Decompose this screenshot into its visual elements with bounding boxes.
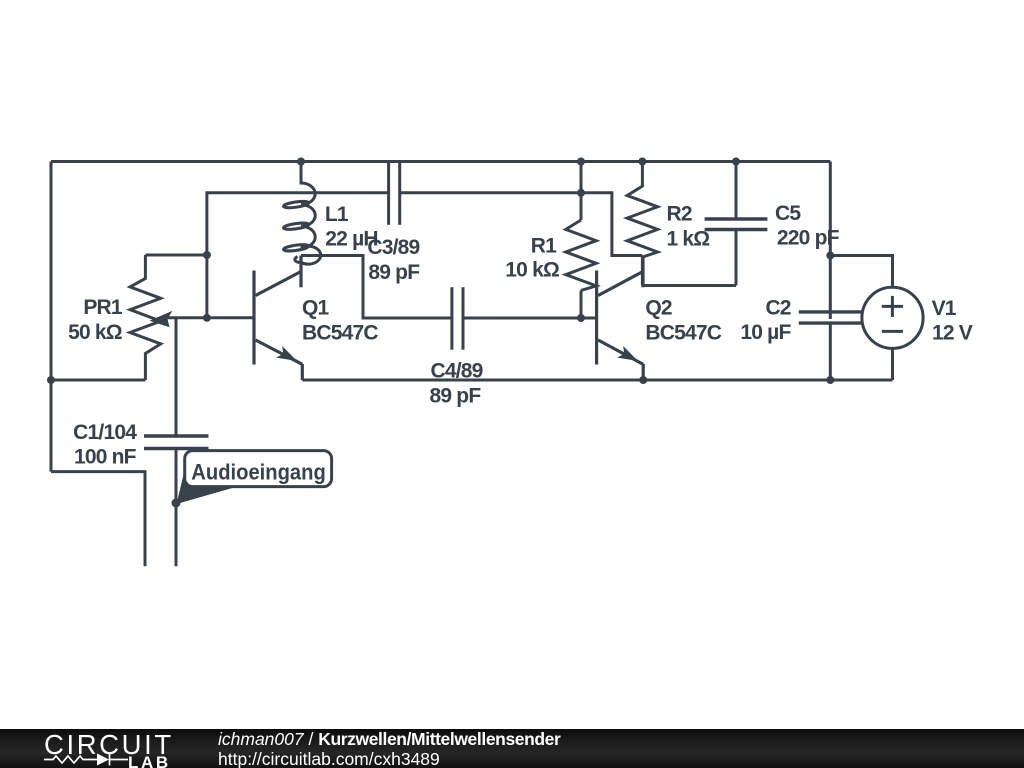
svg-text:12 V: 12 V — [932, 321, 973, 344]
label C5 — [775, 202, 840, 250]
node dot left rail bottom — [47, 376, 55, 384]
transistor Q2 BC547C — [597, 256, 644, 381]
label C3 — [367, 236, 420, 284]
resistor R2 1k — [627, 162, 657, 286]
wire C3 left (node between L1 top rail tee and C3) — [207, 193, 389, 318]
label C2 — [740, 296, 791, 344]
wire PR1 bottom to left rail — [51, 379, 145, 382]
svg-text:BC547C: BC547C — [302, 321, 378, 344]
svg-text:C4/89: C4/89 — [431, 360, 483, 383]
svg-text:R1: R1 — [531, 234, 557, 257]
wire C4 to Q2 base — [463, 317, 597, 320]
node dot Q2 emitter on rail — [639, 376, 647, 384]
wire top rail — [51, 160, 830, 163]
capacitor C5 — [705, 162, 768, 286]
wire V1 top branch — [830, 256, 892, 288]
svg-text:V1: V1 — [932, 297, 957, 320]
svg-text:220 pF: 220 pF — [777, 226, 840, 249]
voltage source V1 — [862, 287, 923, 348]
capacitor C3 plates — [389, 162, 400, 225]
wire bottom rail — [302, 379, 892, 382]
node dot wiper tee — [203, 314, 211, 322]
wire wiper to Q1 base — [163, 316, 254, 319]
wire V1 bottom lead — [891, 348, 894, 380]
label L1 — [325, 203, 378, 251]
footer bar — [0, 729, 1024, 768]
wire audio vertical upper (wiper to C1) — [175, 318, 178, 436]
node dot audio input — [172, 499, 181, 508]
svg-text:BC547C: BC547C — [645, 321, 721, 344]
wire PR1 top tee — [145, 254, 207, 257]
svg-text:Q1: Q1 — [302, 296, 330, 319]
node dot R1 bottom / Q2 base — [577, 314, 585, 322]
node dot PR1 top tee — [203, 251, 211, 259]
wire R2 bottom to C5 bottom — [642, 284, 736, 287]
svg-text:100 nF: 100 nF — [74, 445, 137, 468]
node dot R1 top — [577, 158, 585, 166]
svg-text:10 µF: 10 µF — [740, 321, 791, 344]
transistor Q1 BC547C — [254, 256, 302, 381]
label Q2 — [645, 296, 721, 344]
svg-text:1 kΩ: 1 kΩ — [667, 227, 710, 250]
wire R1 bottom lead — [580, 290, 583, 318]
potentiometer wiper arrow — [150, 311, 173, 328]
svg-text:Q2: Q2 — [645, 296, 672, 319]
label Q1 — [302, 296, 378, 344]
svg-text:C1/104: C1/104 — [73, 421, 137, 444]
label PR1 — [68, 296, 123, 344]
label C1 — [73, 421, 137, 469]
svg-text:C2: C2 — [765, 296, 790, 319]
inductor L1 22uH — [283, 162, 321, 265]
wire right drop lower segment — [829, 324, 832, 381]
capacitor C2 plates — [799, 312, 862, 323]
node dot R2 top — [638, 158, 646, 166]
svg-text:89 pF: 89 pF — [430, 385, 482, 408]
label C4 — [430, 360, 483, 408]
node dot C2 top / V1 branch — [826, 252, 834, 260]
resistor PR1 (potentiometer 50k) — [130, 255, 161, 380]
svg-text:50 kΩ: 50 kΩ — [68, 321, 122, 344]
label V1 — [932, 297, 973, 345]
svg-text:10 kΩ: 10 kΩ — [505, 259, 559, 282]
capacitor C1 plates — [144, 436, 209, 449]
node dot C2 bottom rail — [826, 376, 834, 384]
wire R1 top vertical — [580, 162, 583, 221]
svg-text:Audioeingang: Audioeingang — [191, 459, 325, 484]
node dot L1 top — [297, 158, 305, 166]
callout Audioeingang — [177, 451, 332, 504]
wire C3 right to Q2 collector node — [400, 193, 643, 256]
wire Q1 collector to C4 — [301, 256, 452, 319]
svg-text:C5: C5 — [775, 202, 801, 225]
svg-text:89 pF: 89 pF — [368, 261, 420, 284]
label R1 — [505, 234, 559, 281]
footer text — [218, 730, 560, 768]
CircuitLab logo — [44, 731, 174, 759]
svg-text:L1: L1 — [325, 203, 349, 226]
wire audio vertical lower (C1 to open end) — [175, 449, 178, 567]
wire left rail — [50, 162, 53, 472]
label R2 — [667, 202, 710, 250]
wire right drop to V1 node — [829, 162, 832, 320]
svg-text:R2: R2 — [667, 202, 692, 225]
capacitor C4 plates — [452, 287, 463, 350]
resistor R1 10k — [566, 220, 596, 290]
node dot C5 top — [732, 158, 740, 166]
svg-text:C3/89: C3/89 — [367, 236, 419, 259]
wire audio ground L — [51, 472, 145, 567]
node dot C3 wire crossing R1 — [577, 189, 585, 197]
svg-text:PR1: PR1 — [83, 296, 123, 319]
